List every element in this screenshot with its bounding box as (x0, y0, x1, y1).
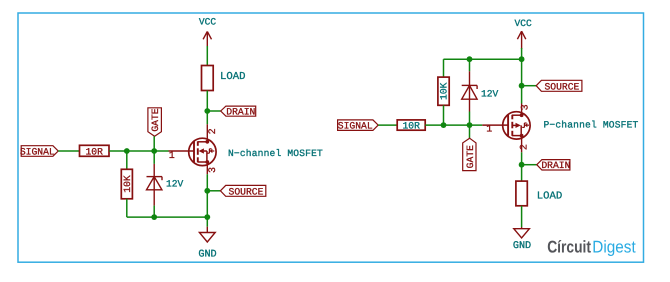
zener diode D1 12V (left) (147, 164, 163, 206)
wire R3 to gate pin (right) (425, 124, 482, 126)
transistor Q2 P-channel MOSFET (482, 112, 530, 139)
wire SIGNAL to R1 (left) (58, 150, 79, 152)
svg-text:1: 1 (169, 151, 175, 162)
svg-text:3: 3 (208, 167, 219, 173)
junction drain node (right) (519, 162, 525, 168)
wire top rail to R4 (right) (443, 59, 445, 77)
junction source node (right) (519, 83, 525, 89)
junction top rail VCC (right) (519, 56, 525, 62)
junction D1 bottom (left) (151, 214, 157, 220)
wire drain pin down to drain node (right) (521, 152, 523, 181)
svg-text:VCC: VCC (515, 18, 533, 29)
resistor R1 10R (left) (80, 145, 110, 157)
wire R1 to gate pin (left) (109, 150, 169, 152)
svg-text:3: 3 (520, 104, 531, 110)
svg-text:P−channel MOSFET: P−channel MOSFET (544, 120, 639, 131)
junction gate/R2 node (left) (124, 148, 130, 154)
resistor LOAD (left) (202, 66, 214, 91)
global label SIGNAL (right) (338, 120, 379, 132)
svg-text:2: 2 (208, 128, 219, 134)
wire bottom rail (left) (127, 216, 208, 218)
wire top rail to D2 (right) (469, 59, 471, 71)
svg-text:SOURCE: SOURCE (229, 186, 264, 197)
wire GATE label to gate node (left) (153, 136, 155, 151)
junction top rail zener (right) (467, 56, 473, 62)
global label DRAIN (left) (221, 106, 256, 118)
wire LOAD to GND (right) (521, 206, 523, 227)
svg-text:N−channel MOSFET: N−channel MOSFET (228, 148, 323, 159)
svg-text:SIGNAL: SIGNAL (20, 146, 55, 157)
junction source node (left) (204, 188, 210, 194)
wire VCC to LOAD (left) (206, 46, 208, 66)
junction drain node (left) (204, 108, 210, 114)
wire top rail (right) (444, 58, 522, 60)
svg-text:LOAD: LOAD (537, 190, 562, 202)
global label GATE (right) (463, 138, 476, 170)
wire source pin to GND (left) (206, 174, 208, 227)
junction gate/R4 node (right) (441, 122, 447, 128)
wire LOAD to drain node (left) (206, 91, 208, 125)
global label SIGNAL (left) (20, 146, 58, 158)
wire source node to SOURCE label (left) (207, 190, 220, 192)
svg-text:DRAIN: DRAIN (226, 107, 255, 118)
wire D2 to gate line (right) (469, 112, 471, 126)
svg-text:Círcuit: Círcuit (547, 237, 591, 256)
wire gate node to GATE label (right) (469, 125, 471, 138)
power symbol VCC (left) (203, 32, 211, 47)
svg-text:LOAD: LOAD (220, 71, 245, 83)
svg-text:Digest: Digest (592, 237, 636, 256)
wire gate node down to D1 (left) (153, 151, 155, 164)
pin 3 source pin of Q2 (520, 104, 531, 116)
wire R2 to bottom rail (left) (126, 199, 128, 217)
pin 3 source pin of Q1 (207, 162, 219, 174)
resistor R3 10R (right) (397, 120, 425, 131)
wire drain node to DRAIN label (right) (522, 164, 537, 166)
junction gate/D2 node (right) (467, 122, 473, 128)
transistor Q1 N-channel MOSFET (169, 138, 217, 165)
svg-text:2: 2 (520, 144, 531, 150)
wire gate node down to R2 (left) (126, 151, 128, 169)
ground symbol (right) (514, 227, 530, 238)
svg-text:GND: GND (198, 249, 216, 260)
wire VCC down (right) (521, 48, 523, 59)
pin 2 drain pin of Q2 (520, 136, 531, 153)
wire source node to SOURCE label (right) (522, 85, 537, 87)
svg-text:DRAIN: DRAIN (541, 160, 570, 171)
junction gate/D1 node (left) (151, 148, 157, 154)
resistor R2 10K (left) (121, 169, 133, 199)
svg-text:GATE: GATE (150, 108, 161, 131)
global label SOURCE (right) (536, 80, 582, 92)
svg-text:GATE: GATE (465, 145, 476, 168)
svg-text:10K: 10K (439, 82, 450, 100)
wire R4 to gate line (right) (443, 105, 445, 125)
power symbol VCC (right) (517, 31, 525, 49)
svg-text:10R: 10R (402, 120, 420, 131)
svg-text:10R: 10R (85, 146, 103, 157)
ground symbol (left) (199, 227, 215, 242)
resistor R4 10K (right) (438, 77, 450, 105)
svg-text:GND: GND (513, 241, 531, 252)
resistor LOAD (right) (516, 181, 527, 206)
svg-text:VCC: VCC (199, 17, 217, 28)
svg-text:SIGNAL: SIGNAL (338, 121, 373, 132)
wire D1 to bottom rail (left) (153, 206, 155, 218)
svg-text:12V: 12V (166, 179, 184, 190)
junction bottom rail source (left) (204, 214, 210, 220)
global label GATE (left) (148, 108, 162, 137)
pin 2 drain pin of Q1 (207, 124, 219, 142)
svg-text:SOURCE: SOURCE (544, 81, 579, 92)
svg-text:1: 1 (486, 125, 492, 136)
zener diode D2 12V (right) (462, 71, 477, 111)
global label DRAIN (right) (537, 160, 571, 172)
svg-text:12V: 12V (481, 89, 499, 100)
global label SOURCE (left) (220, 185, 265, 197)
wire source pin up (right) (521, 59, 523, 103)
wire drain node to DRAIN label (left) (207, 110, 220, 112)
wire SIGNAL to R3 (right) (378, 124, 397, 126)
svg-text:10K: 10K (122, 175, 133, 193)
